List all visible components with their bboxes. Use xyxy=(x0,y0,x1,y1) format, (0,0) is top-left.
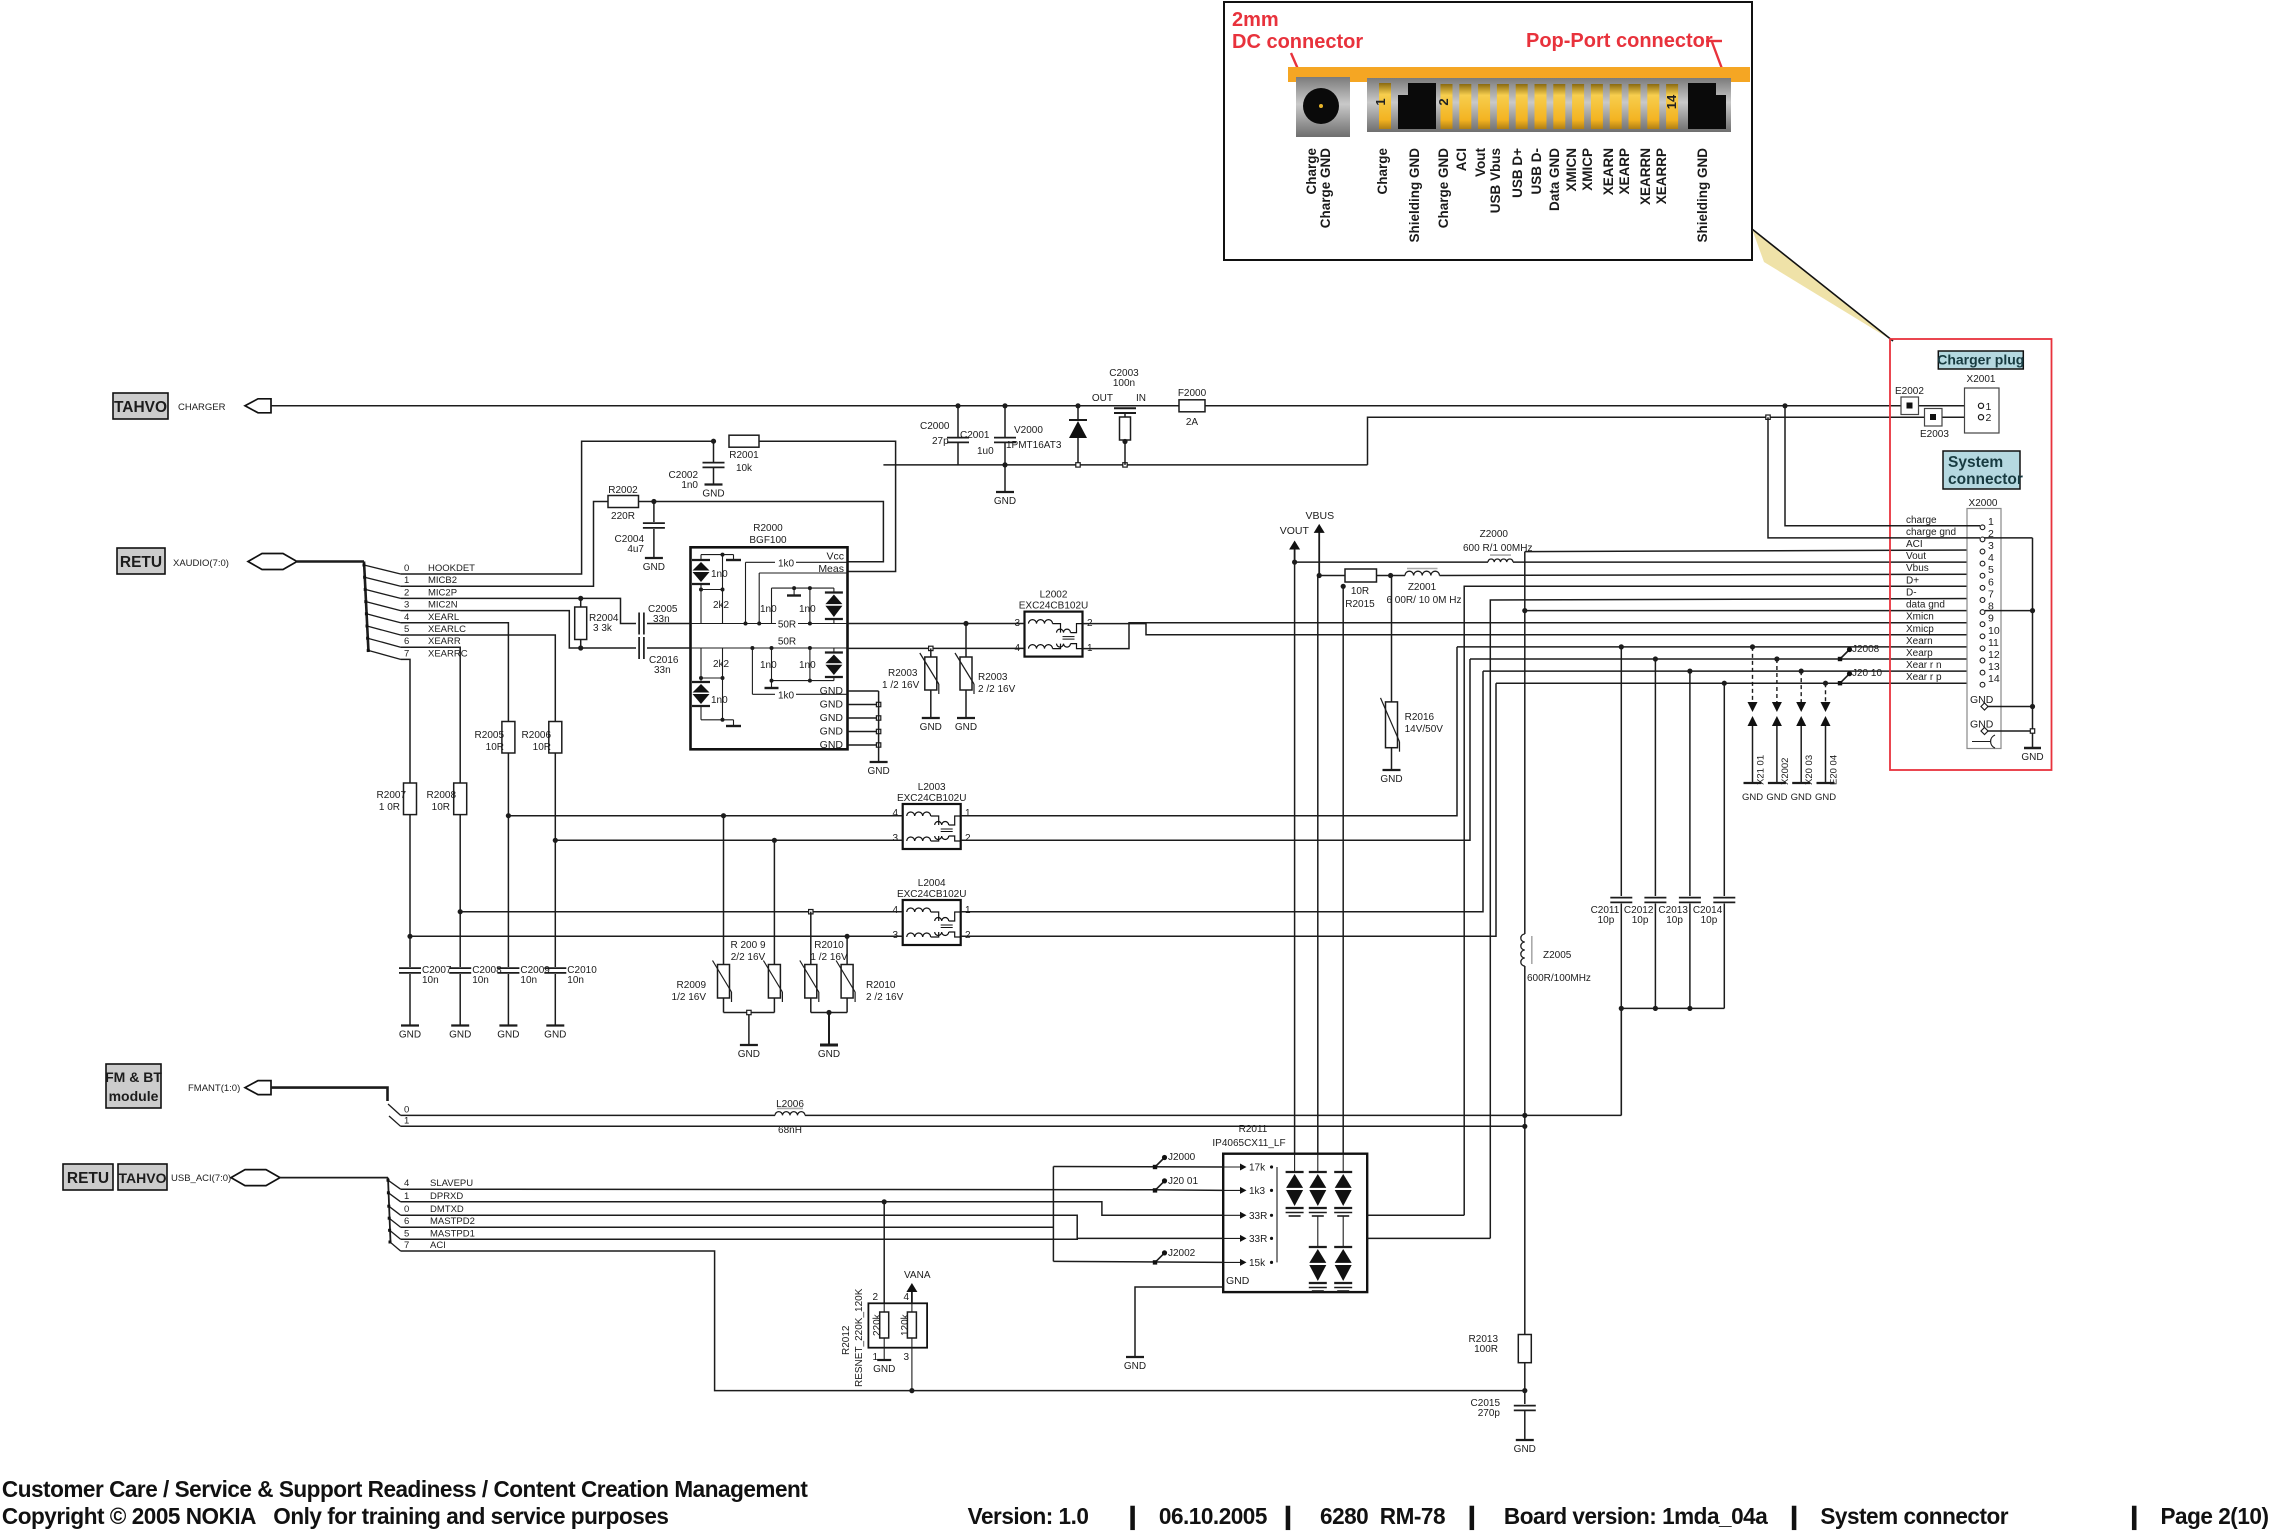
capacitor C2007 xyxy=(409,936,411,967)
svg-text:ACI: ACI xyxy=(1906,539,1923,550)
svg-text:10p: 10p xyxy=(1666,915,1683,926)
svg-text:GND: GND xyxy=(497,1030,519,1041)
test point J2002 xyxy=(1155,1254,1163,1262)
svg-text:10: 10 xyxy=(1988,625,2000,637)
wire Vbus drop to R2011 xyxy=(1317,576,1319,1154)
svg-text:1n0: 1n0 xyxy=(711,569,728,580)
spark gap E2004 xyxy=(1825,683,1827,702)
svg-text:SLAVEPU: SLAVEPU xyxy=(430,1178,473,1189)
svg-text:MASTPD1: MASTPD1 xyxy=(430,1228,475,1239)
R2011 pin 33R xyxy=(1223,1214,1241,1216)
svg-text:BGF100: BGF100 xyxy=(749,535,787,546)
svg-text:Vcc: Vcc xyxy=(826,551,844,563)
X2000 pin 8 (data gnd) xyxy=(1980,610,1985,615)
svg-text:2: 2 xyxy=(965,930,971,941)
svg-text:14: 14 xyxy=(1664,94,1679,109)
svg-text:USB Vbus: USB Vbus xyxy=(1488,148,1503,213)
X2000 pin 6 (D+) xyxy=(1980,585,1985,590)
svg-text:100R: 100R xyxy=(1474,1344,1498,1355)
R2000 bottom 50R line xyxy=(691,647,848,649)
diode stack top x1294 xyxy=(1294,1154,1296,1172)
svg-text:charge: charge xyxy=(1906,515,1937,526)
wire DPRXD jog to 33R-1 xyxy=(401,1202,1224,1216)
svg-text:13: 13 xyxy=(1988,661,2000,673)
junction rail/gnd-a xyxy=(2030,704,2035,709)
left shielding pad xyxy=(1398,83,1436,129)
svg-text:XEARL: XEARL xyxy=(428,612,459,623)
wire FMANT1 line xyxy=(401,1125,1525,1127)
svg-text:VOUT: VOUT xyxy=(1280,525,1310,537)
R2000 diode stack top-right xyxy=(825,591,843,593)
svg-text:F2000: F2000 xyxy=(1178,388,1207,399)
svg-text:10p: 10p xyxy=(1632,915,1649,926)
svg-text:4: 4 xyxy=(892,905,898,916)
block TAHVO xyxy=(113,393,168,419)
DC jack xyxy=(1296,77,1350,137)
R2011 pin 1k3 xyxy=(1223,1189,1241,1191)
capacitor C2013 xyxy=(1689,671,1691,896)
junction rail/C2001 xyxy=(1002,462,1007,467)
svg-text:2: 2 xyxy=(1436,98,1451,105)
svg-text:2mm: 2mm xyxy=(1232,9,1279,31)
filter L2003 xyxy=(903,804,961,849)
svg-text:1n0: 1n0 xyxy=(799,660,816,671)
svg-text:ACI: ACI xyxy=(430,1240,446,1251)
svg-text:R2008: R2008 xyxy=(427,790,457,801)
junction rail/C2003R xyxy=(1123,463,1127,467)
svg-text:❙ Page 2(10): ❙ Page 2(10) xyxy=(2125,1503,2269,1531)
R2011 pin 15k xyxy=(1223,1261,1241,1263)
wire rail to FMANT0 xyxy=(1620,1008,1622,1115)
resistor under C2003 xyxy=(1124,413,1126,417)
wire DMTXD jog to 33R-2 xyxy=(401,1215,1224,1238)
resistor R2005 xyxy=(502,722,515,754)
svg-text:X2000: X2000 xyxy=(1969,498,1998,509)
XAUDIO fan-out xyxy=(364,562,369,653)
svg-text:Charge GND: Charge GND xyxy=(1436,148,1451,229)
fuse F2000 xyxy=(1179,400,1205,412)
junction X2002 top xyxy=(1774,656,1779,661)
test point J2008 xyxy=(1840,651,1848,659)
svg-text:XEARRN: XEARRN xyxy=(1638,148,1653,205)
ground GND E2004 xyxy=(1817,782,1835,784)
capacitor C2009 xyxy=(507,816,509,967)
svg-text:3: 3 xyxy=(1988,540,1994,552)
test point J2001 xyxy=(1155,1182,1163,1190)
svg-text:Xmicp: Xmicp xyxy=(1906,624,1934,635)
resistor R2002 xyxy=(608,496,639,508)
svg-text:R2005: R2005 xyxy=(475,730,505,741)
wire to L2003 pin4 xyxy=(508,815,902,817)
svg-text:2A: 2A xyxy=(1186,417,1199,428)
R2000 2k2 bottom xyxy=(722,648,724,678)
svg-text:9: 9 xyxy=(1988,613,1994,625)
wire Xearp row xyxy=(1470,658,1980,660)
X2000 pin 3 (ACI) xyxy=(1980,549,1985,554)
svg-text:Vout: Vout xyxy=(1906,551,1926,562)
block FM & BT module xyxy=(106,1064,161,1108)
svg-text:GND: GND xyxy=(1970,694,1994,706)
svg-text:1: 1 xyxy=(965,905,971,916)
svg-text:IP4065CX11_LF: IP4065CX11_LF xyxy=(1212,1138,1285,1149)
svg-text:R2007: R2007 xyxy=(377,790,407,801)
junction R2009-2 xyxy=(772,838,777,843)
svg-text:data gnd: data gnd xyxy=(1906,600,1945,611)
wire L2004 out1 riser xyxy=(961,671,1483,912)
svg-text:5: 5 xyxy=(404,1228,409,1239)
svg-text:XEARRP: XEARRP xyxy=(1654,148,1669,204)
wire to L2003 pin3 xyxy=(555,839,902,841)
wire L2004 out2 riser xyxy=(961,683,1496,936)
svg-text:EXC24CB102U: EXC24CB102U xyxy=(1019,601,1088,612)
junction chain/FMANT1 xyxy=(1522,1124,1527,1129)
wire charge drop xyxy=(1785,406,1980,526)
wire D+ row xyxy=(1464,586,1980,1215)
ground GND under R2000 xyxy=(870,761,888,763)
svg-text:6: 6 xyxy=(1988,576,1994,588)
svg-text:Customer Care / Service & Supp: Customer Care / Service & Support Readin… xyxy=(2,1476,808,1503)
R2000 internal 1k0 to Vcc xyxy=(745,562,747,623)
svg-text:J20 01: J20 01 xyxy=(1168,1176,1198,1187)
svg-text:R2015: R2015 xyxy=(1345,599,1375,610)
test point J2000 xyxy=(1155,1159,1163,1167)
capacitor C2001 xyxy=(1004,406,1006,437)
bus wire FMANT xyxy=(271,1088,388,1101)
svg-text:2 /2 16V: 2 /2 16V xyxy=(978,684,1016,695)
svg-text:Charger plug: Charger plug xyxy=(1937,352,2024,368)
varistor R2003 half2 xyxy=(965,624,967,658)
ground GND under R2010 xyxy=(820,1044,838,1047)
svg-text:7: 7 xyxy=(404,648,409,659)
svg-text:270p: 270p xyxy=(1478,1408,1501,1419)
svg-text:3: 3 xyxy=(892,833,898,844)
ground GND X2002 xyxy=(1768,782,1786,784)
ground GND under C2015 xyxy=(1516,1439,1534,1441)
varistor R2010 half1 xyxy=(810,912,812,965)
svg-text:1: 1 xyxy=(1373,98,1388,105)
FMANT fan-out xyxy=(388,1104,401,1115)
svg-text:Version: 1.0 ❙ 06.10.20: Version: 1.0 ❙ 06.10.2005 ❙ 6280 RM-78 ❙… xyxy=(968,1503,2009,1531)
block RETU (USB) xyxy=(63,1164,113,1190)
wire Vbus row xyxy=(1319,575,1345,577)
X2000 pin 1 (charge) xyxy=(1980,525,1985,530)
wire L2002 pin1 to Xmicn row (crossover) xyxy=(1083,623,1981,649)
USB_ACI fan-out xyxy=(388,1178,391,1242)
svg-text:R2006: R2006 xyxy=(522,730,552,741)
svg-text:DMTXD: DMTXD xyxy=(430,1204,464,1215)
svg-text:J20 10: J20 10 xyxy=(1852,668,1882,679)
X2000 pin 13 (Xear r n) xyxy=(1980,670,1985,675)
wire XEARR column (R2008) xyxy=(401,647,461,783)
ground GND under R2011 xyxy=(1126,1356,1144,1358)
X2001 pin 2 xyxy=(1978,415,1983,420)
inductor Z2001 xyxy=(1405,571,1440,575)
svg-text:R2003: R2003 xyxy=(888,668,918,679)
svg-text:15k: 15k xyxy=(1249,1258,1266,1269)
svg-text:X20 03: X20 03 xyxy=(1804,755,1815,785)
R2012 120k resistor xyxy=(911,1290,913,1312)
svg-text:10R: 10R xyxy=(1351,586,1369,597)
bus hexagon USB_ACI xyxy=(231,1170,280,1186)
svg-text:3: 3 xyxy=(892,930,898,941)
svg-text:V2000: V2000 xyxy=(1014,425,1043,436)
resistor R2007 xyxy=(404,783,417,815)
X2000 pin 11 (Xearn) xyxy=(1980,646,1985,651)
wire L2003 out1 riser xyxy=(961,647,1457,816)
diode stack bottom x1317 xyxy=(1317,1216,1319,1247)
ground GND under C2004 xyxy=(645,557,663,559)
svg-text:4: 4 xyxy=(404,612,409,623)
spark gap X2003 xyxy=(1800,671,1802,702)
wire pin2 to gnd rail xyxy=(1984,537,2033,539)
junction R2015/Z2001/R2016 xyxy=(1388,573,1393,578)
resistor R2004 xyxy=(580,598,582,607)
wire L2002 pin2 to Xmicp row (crossover) xyxy=(1083,624,1981,635)
pop-port pins 2-14 xyxy=(1441,84,1453,129)
svg-text:R2012: R2012 xyxy=(841,1325,852,1355)
gnd rail xyxy=(2032,538,2034,748)
svg-text:connector: connector xyxy=(1948,471,2023,488)
junction C2012 top xyxy=(1653,656,1658,661)
junction R2001/C2002 xyxy=(711,439,716,444)
svg-text:GND: GND xyxy=(738,1049,760,1060)
svg-text:XAUDIO(7:0): XAUDIO(7:0) xyxy=(173,558,229,569)
svg-text:GND: GND xyxy=(643,562,665,573)
svg-text:L2002: L2002 xyxy=(1040,590,1068,601)
wire Vout drop to R2011 xyxy=(1294,562,1296,1154)
svg-text:XMICP: XMICP xyxy=(1580,148,1595,191)
capacitor C2010 xyxy=(554,840,556,967)
inductor Z2000 xyxy=(1488,559,1513,562)
svg-text:GND: GND xyxy=(1514,1444,1536,1455)
svg-text:Copyright © 2005 NOKIA Only: Copyright © 2005 NOKIA Only for training… xyxy=(2,1503,669,1530)
svg-text:1 /2 16V: 1 /2 16V xyxy=(810,952,848,963)
junction chargegnd to X2000 pin2 drop xyxy=(1766,415,1770,419)
svg-text:D+: D+ xyxy=(1906,575,1919,586)
svg-text:11: 11 xyxy=(1988,637,1999,649)
junction R2010-1 xyxy=(809,910,813,914)
X2001 pin 1 xyxy=(1978,403,1983,408)
wire Vout row xyxy=(1295,561,1488,563)
yellow callout wedge xyxy=(1752,229,1893,341)
svg-text:XEARN: XEARN xyxy=(1601,148,1616,195)
svg-text:1: 1 xyxy=(404,1191,409,1202)
svg-text:120k: 120k xyxy=(900,1313,911,1336)
bus-in arrow FMANT xyxy=(245,1081,271,1095)
wire MIC2P xyxy=(401,598,636,623)
svg-text:ACI: ACI xyxy=(1454,148,1469,171)
svg-text:Z2000: Z2000 xyxy=(1480,529,1509,540)
wire Xearrn row xyxy=(1483,670,1980,672)
svg-text:0: 0 xyxy=(404,1204,409,1215)
svg-text:12: 12 xyxy=(1988,649,2000,661)
X2000 pin 12 (Xearp) xyxy=(1980,658,1985,663)
wire SLAVEPU to 1k3 xyxy=(401,1189,1224,1190)
svg-text:27p: 27p xyxy=(932,436,949,447)
svg-text:USB_ACI(7:0): USB_ACI(7:0) xyxy=(171,1173,231,1184)
svg-text:1n0: 1n0 xyxy=(681,480,698,491)
svg-text:1k0: 1k0 xyxy=(778,690,795,701)
svg-text:GND: GND xyxy=(702,489,724,500)
R2000 mid cluster top xyxy=(771,588,773,623)
junction rail/gnd-b xyxy=(2030,729,2034,733)
red highlight box xyxy=(1890,339,2052,770)
svg-text:DPRXD: DPRXD xyxy=(430,1191,463,1202)
wire R2011 33R-1 output to D+ riser xyxy=(1367,1214,1464,1216)
svg-text:XMICN: XMICN xyxy=(1564,148,1579,192)
Pop-Port housing xyxy=(1367,78,1731,132)
svg-text:2: 2 xyxy=(872,1292,878,1303)
svg-text:4: 4 xyxy=(1988,552,1994,564)
svg-text:3: 3 xyxy=(903,1352,909,1363)
junction Z2005/FMANT xyxy=(1522,1113,1527,1118)
ground GND under R2003-2 xyxy=(957,717,975,719)
R2000 top 50R line xyxy=(691,623,848,625)
inductor L2006 xyxy=(775,1112,805,1116)
svg-text:VANA: VANA xyxy=(904,1270,931,1281)
svg-text:220R: 220R xyxy=(611,511,635,522)
svg-text:R2009: R2009 xyxy=(677,980,707,991)
junction MIC2N/R2004 xyxy=(578,645,583,650)
svg-text:OUT: OUT xyxy=(1092,393,1113,404)
svg-text:33R: 33R xyxy=(1249,1234,1267,1245)
svg-text:10R: 10R xyxy=(533,742,551,753)
R2000 1n0 cap top-left xyxy=(722,555,724,590)
junction E2004 top xyxy=(1823,681,1828,686)
junction R2009-1 xyxy=(721,813,726,818)
svg-text:220k: 220k xyxy=(872,1313,883,1336)
wire MASTPD2 stub xyxy=(401,1226,1054,1228)
svg-text:1k0: 1k0 xyxy=(778,558,795,569)
wire Xearrp row xyxy=(1496,682,1980,684)
svg-text:L2006: L2006 xyxy=(776,1099,804,1110)
junction R2010-2 xyxy=(845,934,850,939)
svg-text:17k: 17k xyxy=(1249,1163,1266,1174)
svg-text:MIC2P: MIC2P xyxy=(428,587,457,598)
svg-text:1 0R: 1 0R xyxy=(379,802,400,813)
svg-text:1: 1 xyxy=(965,808,971,819)
block TAHVO (USB) xyxy=(118,1164,167,1190)
svg-text:GND: GND xyxy=(2021,752,2043,763)
wire MIC2N xyxy=(401,611,636,648)
capacitor C2002 xyxy=(713,441,715,462)
pointer line DC connector xyxy=(1291,53,1311,99)
junction rail/V2000 xyxy=(1076,463,1080,467)
svg-text:10k: 10k xyxy=(736,463,753,474)
svg-text:1n0: 1n0 xyxy=(760,660,777,671)
wire to L2004 pin3 xyxy=(410,935,903,937)
svg-text:GND: GND xyxy=(449,1030,471,1041)
ground GND R2012 pin1 xyxy=(877,1359,891,1361)
ground GND X2003 xyxy=(1792,782,1810,784)
svg-text:Z2001: Z2001 xyxy=(1408,582,1437,593)
svg-text:1: 1 xyxy=(872,1352,878,1363)
svg-text:33n: 33n xyxy=(653,614,670,625)
capacitor C2011 xyxy=(1620,647,1622,896)
svg-text:E2003: E2003 xyxy=(1920,429,1949,440)
wire XEARLC column (R2006) xyxy=(401,635,556,722)
wire 15k input row xyxy=(1053,1261,1223,1262)
svg-text:X2001: X2001 xyxy=(1967,374,1996,385)
varistor R2016 xyxy=(1391,576,1393,702)
wire Xearn row xyxy=(1457,646,1980,648)
R2000 internal 1k0 bottom xyxy=(751,648,753,694)
svg-text:GND: GND xyxy=(399,1030,421,1041)
svg-text:Pop-Port connector: Pop-Port connector xyxy=(1526,30,1713,52)
X2000 pin 7 (D-) xyxy=(1980,598,1985,603)
svg-text:charge gnd: charge gnd xyxy=(1906,527,1956,538)
svg-text:Charge: Charge xyxy=(1375,148,1390,195)
svg-text:5: 5 xyxy=(404,624,409,635)
diode stack top x1343 xyxy=(1342,1154,1344,1172)
svg-text:GND: GND xyxy=(818,1049,840,1060)
svg-text:X21 01: X21 01 xyxy=(1756,755,1767,785)
svg-text:IN: IN xyxy=(1136,393,1146,404)
wire DPRXD junction to R2012 xyxy=(883,1202,885,1304)
ground GND under C2007 xyxy=(401,1024,419,1026)
wire ACI row to pin3 xyxy=(1525,550,1980,552)
svg-text:R2001: R2001 xyxy=(729,450,759,461)
svg-text:1k3: 1k3 xyxy=(1249,1186,1266,1197)
R2011 pin 17k xyxy=(1223,1166,1241,1168)
capacitor C2016 (series) xyxy=(638,637,640,659)
svg-text:Xmicn: Xmicn xyxy=(1906,612,1934,623)
svg-text:Charge: Charge xyxy=(1304,148,1319,195)
svg-text:600 R/1 00MHz: 600 R/1 00MHz xyxy=(1463,543,1532,554)
block RETU xyxy=(117,548,165,574)
svg-text:6 00R/ 10 0M Hz: 6 00R/ 10 0M Hz xyxy=(1386,595,1461,606)
svg-text:L2003: L2003 xyxy=(918,782,946,793)
pin 1 pad xyxy=(1379,83,1391,129)
junction charger/C2000 xyxy=(955,403,960,408)
junction R2010 gnd xyxy=(826,1010,831,1015)
svg-text:XEARRC: XEARRC xyxy=(428,648,468,659)
varistor R2009 half1 xyxy=(723,816,725,965)
junction R2002/C2004 xyxy=(651,499,656,504)
svg-text:2: 2 xyxy=(404,587,409,598)
svg-text:1PMT16AT3: 1PMT16AT3 xyxy=(1006,440,1062,451)
junction varistor R2003-1 xyxy=(929,646,933,650)
junction C2011 top xyxy=(1619,644,1624,649)
svg-text:GND: GND xyxy=(1226,1275,1250,1287)
orange PCB edge bar xyxy=(1288,67,1750,82)
wire CHARGER net xyxy=(271,405,1979,407)
svg-text:TAHVO: TAHVO xyxy=(114,399,167,416)
ground GND under R2009 xyxy=(740,1044,758,1046)
wire XEARRC column (R2007) xyxy=(401,659,410,783)
svg-text:GND: GND xyxy=(873,1364,895,1375)
svg-text:CHARGER: CHARGER xyxy=(178,402,226,413)
varistor R2003 half1 xyxy=(930,648,932,657)
svg-text:1u0: 1u0 xyxy=(977,446,994,457)
svg-text:E20 04: E20 04 xyxy=(1829,755,1840,785)
wire R2000 out bottom to L2002 pin4 xyxy=(848,647,1025,649)
ground GND under C2009 xyxy=(499,1024,517,1026)
wire R2011 33R-2 output to D- riser xyxy=(1367,1237,1490,1239)
svg-text:J2002: J2002 xyxy=(1168,1248,1196,1259)
svg-text:2: 2 xyxy=(965,833,971,844)
junction VBUS row xyxy=(1317,573,1322,578)
svg-text:1: 1 xyxy=(1986,401,1992,413)
wire R2009 gnd join xyxy=(724,1012,775,1014)
svg-text:Data GND: Data GND xyxy=(1547,148,1562,211)
junction D+ row start xyxy=(1341,584,1346,589)
junction charger/V2000 xyxy=(1075,403,1080,408)
X2000 pin 9 (Xmicn) xyxy=(1980,622,1985,627)
svg-text:RETU: RETU xyxy=(67,1170,109,1187)
wire D+ drop to R2011 xyxy=(1342,586,1344,1153)
wire L2003 out2 riser xyxy=(961,659,1470,840)
